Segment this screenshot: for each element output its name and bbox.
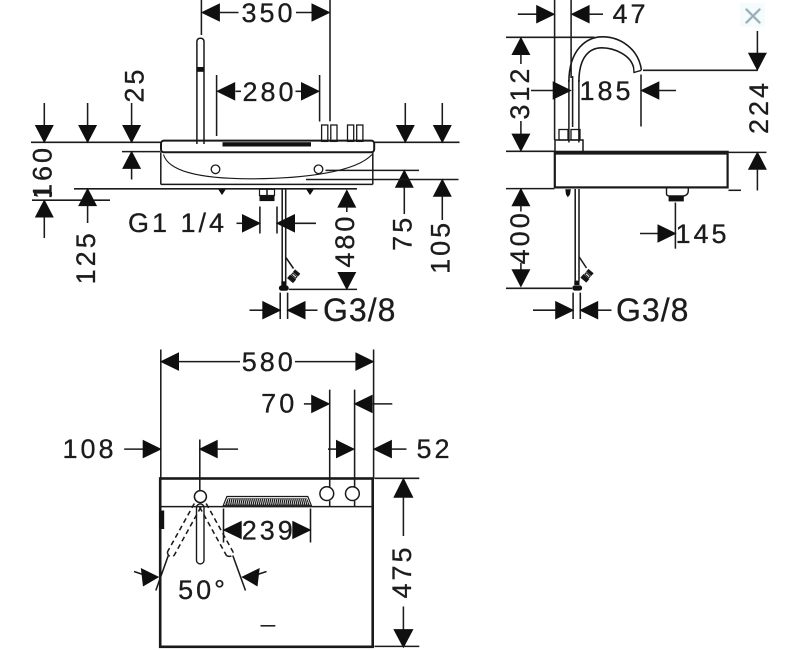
svg-text:108: 108 xyxy=(62,434,116,464)
svg-text:224: 224 xyxy=(744,80,774,134)
spout tip face xyxy=(634,68,642,73)
swivel arrow left xyxy=(141,568,159,587)
dim 239 right extension xyxy=(310,509,312,543)
left edge tab xyxy=(159,511,164,530)
riser base plate xyxy=(555,140,583,152)
dim 580 line + arrows xyxy=(160,352,179,371)
dim 52 arrows xyxy=(328,448,337,450)
svg-text:185: 185 xyxy=(579,76,633,106)
dim 580 left extension xyxy=(160,350,162,479)
dim G1 1/4 arrows and ticks xyxy=(237,222,244,224)
dim 47 left extension xyxy=(554,0,556,140)
svg-text:47: 47 xyxy=(612,0,648,29)
dim 70 extension handle1 xyxy=(329,390,331,507)
drain flange white xyxy=(260,189,275,195)
swivel arrow right tail xyxy=(258,572,267,575)
pipe end nut xyxy=(279,286,289,291)
shelf top reference line (left and right) xyxy=(31,141,460,143)
fixing mark right under basin xyxy=(306,189,314,195)
bottom drain dash xyxy=(261,625,276,627)
shelf front outline xyxy=(161,141,374,153)
svg-text:G3/8: G3/8 xyxy=(323,292,396,328)
dim 350 line + arrows xyxy=(219,12,311,14)
plan circle handle 2 xyxy=(346,487,360,501)
dim 400 bottom reference line xyxy=(506,287,572,289)
plan deck divider line xyxy=(162,506,374,508)
small bracket mark xyxy=(34,193,52,196)
dim 400 top reference line xyxy=(506,188,554,190)
svg-text:75: 75 xyxy=(388,215,418,251)
riser base nut left xyxy=(559,130,568,141)
supply pipe double line xyxy=(282,189,286,282)
swivel arrow right xyxy=(241,568,259,587)
flex hose diagonal (side) xyxy=(579,257,586,268)
under-basin reference line xyxy=(74,188,357,190)
G3/8 ticks (side) xyxy=(573,293,580,319)
svg-text:160: 160 xyxy=(28,145,58,199)
dim 400 top arrow xyxy=(511,188,530,206)
spout arc inner xyxy=(579,48,634,82)
dim 312 top arrow xyxy=(511,37,530,55)
flex hose diagonal xyxy=(286,258,294,269)
svg-text:475: 475 xyxy=(387,544,417,598)
shelf side body xyxy=(555,152,728,188)
pipe end nut (side) xyxy=(572,285,582,290)
hose connector (angled valve) xyxy=(287,269,301,283)
basin body left edge xyxy=(160,152,162,184)
dim 70 arrows xyxy=(304,403,313,405)
spout arc outer xyxy=(569,37,642,82)
basin body bottom edge xyxy=(161,183,373,185)
svg-text:52: 52 xyxy=(416,434,452,464)
dim 125 down arrow column xyxy=(87,103,89,127)
dim 280 line + arrows xyxy=(236,90,302,92)
basin body right edge xyxy=(372,152,374,184)
dim 25 reference line xyxy=(122,151,161,153)
svg-text:280: 280 xyxy=(242,77,296,107)
close icon xyxy=(740,3,765,27)
dim 47 arrows xyxy=(518,13,537,15)
handle post 2 xyxy=(348,125,354,141)
dim 280 left extension xyxy=(216,75,218,136)
G3/8 extension ticks xyxy=(280,293,287,319)
dim G3/8 arrows (side) xyxy=(533,309,556,311)
spout riser inner highlight xyxy=(572,76,574,127)
svg-text:G1 1/4: G1 1/4 xyxy=(128,208,227,238)
dim 160 up arrow xyxy=(35,199,54,217)
faucet lever pill xyxy=(197,38,204,144)
svg-text:239: 239 xyxy=(242,516,296,546)
riser base nut right xyxy=(571,130,580,141)
dim 25 up arrow xyxy=(122,151,141,169)
svg-text:G3/8: G3/8 xyxy=(616,292,689,328)
svg-text:145: 145 xyxy=(675,219,729,249)
dim 312 bottom arrow xyxy=(520,121,522,134)
dim 350 right extension xyxy=(329,0,331,121)
swivel leader left xyxy=(156,556,169,591)
dim 350 left extension xyxy=(200,0,202,35)
dim 185 right arrow xyxy=(640,81,659,100)
dim 224 up arrow xyxy=(748,151,767,169)
dim 475 bottom arrow xyxy=(402,607,404,630)
svg-text:400: 400 xyxy=(505,210,535,264)
basin bowl curve xyxy=(164,155,373,179)
dim 475 bottom reference line xyxy=(374,645,419,647)
dim 480 bottom arrow xyxy=(337,272,356,290)
dim 475 top reference line xyxy=(374,477,419,479)
fixing mark left under basin xyxy=(218,189,226,195)
svg-text:312: 312 xyxy=(505,66,535,120)
plan lever dashed right xyxy=(166,504,201,558)
under-shelf outlet xyxy=(667,189,689,197)
outlet black base xyxy=(669,196,684,201)
svg-text:105: 105 xyxy=(426,220,456,274)
dim 75 column arrows xyxy=(404,103,406,127)
dim 185 tip extension line xyxy=(640,75,642,127)
dim 400 bottom arrow xyxy=(520,263,522,270)
shelf top left extension line xyxy=(506,150,555,152)
spout riser left edge xyxy=(568,80,570,143)
pipe end band (side) xyxy=(574,281,579,285)
svg-text:50°: 50° xyxy=(178,575,228,605)
overflow hole left xyxy=(211,165,220,174)
spout riser right edge xyxy=(578,80,580,143)
dim 70 extension handle2 xyxy=(354,390,356,507)
dim 75 reference line (from overflow) xyxy=(326,169,420,171)
shelf side top thick edge xyxy=(555,151,728,155)
dim 480 bottom reference line xyxy=(289,288,357,290)
shelf bottom-right stub line xyxy=(729,189,742,191)
pipe end band xyxy=(281,281,286,285)
outlet extension line down xyxy=(674,203,676,249)
dim 224 down arrow column xyxy=(756,31,758,53)
plan faucet circle xyxy=(194,491,206,503)
dim 47 right extension xyxy=(570,0,572,78)
dim 108 faucet extension xyxy=(199,440,201,491)
dim G3/8 arrows (front) xyxy=(250,309,264,311)
dim 224 top reference line xyxy=(643,69,758,71)
dim 160 down arrow column xyxy=(43,103,45,127)
dim 145 arrow xyxy=(640,233,659,235)
swivel leader right xyxy=(233,556,246,591)
svg-text:70: 70 xyxy=(261,389,297,419)
dim 239 left extension xyxy=(223,509,225,543)
handle post 1 xyxy=(322,125,328,141)
dim 580 right extension xyxy=(373,350,375,479)
drain flange black xyxy=(260,196,275,202)
shelf slot (black) xyxy=(223,142,312,146)
svg-text:580: 580 xyxy=(242,347,296,377)
dim 312 top reference line xyxy=(506,36,595,38)
dim 224 bottom reference line xyxy=(728,151,767,153)
dim 160 reference line xyxy=(32,199,110,201)
plan circle handle 1 xyxy=(320,487,334,501)
dim 280 right extension xyxy=(319,75,321,122)
dim 125 up arrow xyxy=(78,188,97,206)
plan outer rectangle xyxy=(160,479,373,647)
dim 239 arrows xyxy=(223,521,242,540)
lever black band xyxy=(197,67,204,72)
dim 480 top arrow xyxy=(337,189,356,207)
dim 108 arrows xyxy=(124,448,145,450)
plan lever dashed left xyxy=(200,503,235,557)
dim 105 reference line (bowl bottom) xyxy=(306,179,459,181)
drain tailpiece blob xyxy=(565,189,571,197)
swivel arrow left tail xyxy=(134,572,143,575)
svg-text:350: 350 xyxy=(241,0,295,28)
grille outline xyxy=(223,497,311,506)
supply pipe double line (side) xyxy=(575,189,579,281)
dim 185 left arrow (points right at riser) xyxy=(531,90,554,92)
dim 25 down arrow column xyxy=(131,103,133,127)
overflow hole right xyxy=(314,165,323,174)
dim 105 column arrows xyxy=(441,103,443,127)
svg-text:25: 25 xyxy=(120,67,150,103)
dim 475 top arrow xyxy=(393,478,413,498)
svg-text:125: 125 xyxy=(71,230,101,284)
hose connector (side) xyxy=(580,269,594,283)
svg-text:480: 480 xyxy=(330,214,360,268)
plan lever solid xyxy=(197,504,205,564)
